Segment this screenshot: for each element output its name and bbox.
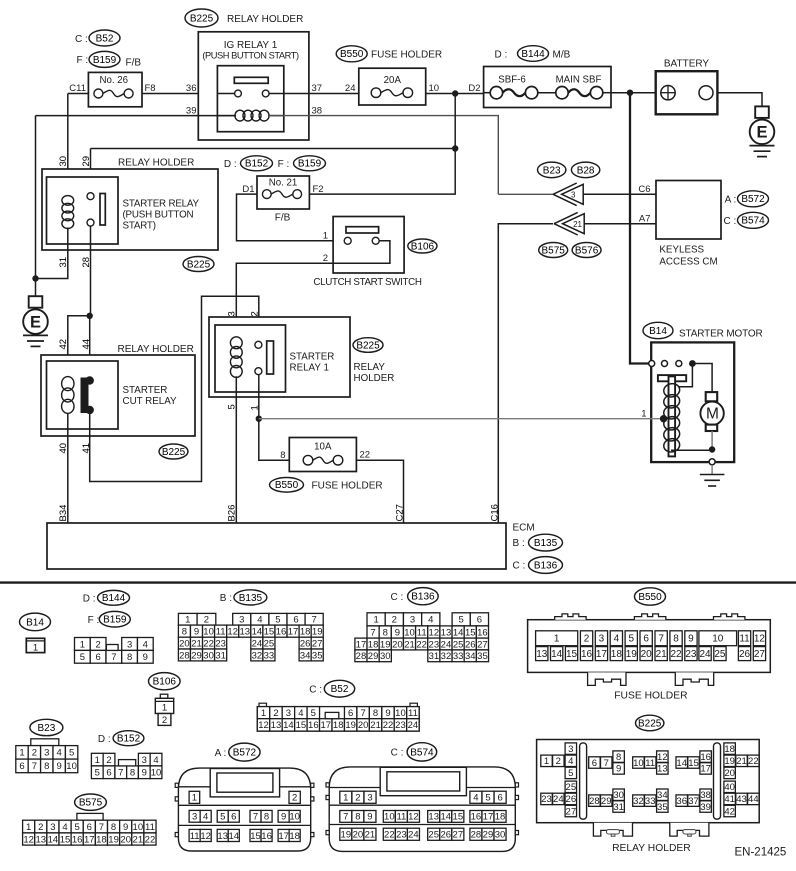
svg-text:21: 21	[365, 830, 376, 841]
connector label A: B572 (bottom)	[215, 743, 260, 761]
svg-text:25: 25	[566, 782, 577, 793]
connector label C: B574	[724, 212, 769, 228]
svg-text:(PUSH BUTTON: (PUSH BUTTON	[123, 210, 194, 221]
svg-text:C16: C16	[490, 504, 501, 521]
svg-text:14: 14	[676, 758, 687, 769]
svg-text:25: 25	[714, 649, 726, 660]
starter motor solenoid plunger	[658, 375, 686, 456]
svg-text:FUSE HOLDER: FUSE HOLDER	[371, 50, 442, 61]
svg-text:B136: B136	[534, 560, 558, 571]
svg-text:3: 3	[568, 744, 573, 755]
svg-text:39: 39	[700, 802, 711, 813]
svg-text:A7: A7	[639, 213, 651, 224]
svg-text:B14: B14	[26, 617, 44, 628]
keyless label B28	[571, 162, 599, 178]
svg-text:28: 28	[179, 650, 190, 661]
svg-text:B106: B106	[411, 241, 435, 252]
svg-text:14: 14	[252, 626, 263, 637]
svg-text:22: 22	[383, 720, 394, 731]
svg-text:25: 25	[264, 638, 275, 649]
svg-text:10A: 10A	[314, 442, 332, 453]
svg-text:19: 19	[724, 756, 735, 767]
svg-text:F :: F :	[77, 55, 89, 66]
svg-text:17: 17	[278, 831, 289, 842]
svg-text:8: 8	[264, 812, 269, 823]
svg-text:27: 27	[312, 638, 323, 649]
svg-text:28: 28	[589, 796, 600, 807]
svg-text:31: 31	[429, 651, 440, 662]
keyless access CM	[656, 181, 721, 268]
starter motor ground terminal	[709, 459, 715, 465]
svg-text:17: 17	[320, 720, 331, 731]
svg-text:28: 28	[356, 651, 367, 662]
svg-text:24: 24	[408, 720, 419, 731]
junction node ground-left	[32, 275, 38, 281]
svg-text:26: 26	[300, 638, 311, 649]
svg-text:38: 38	[700, 790, 711, 801]
svg-text:E: E	[756, 124, 767, 142]
connector label F: B159	[77, 51, 142, 68]
connector label F: B159 (No.21)	[278, 156, 326, 171]
wire 37 / 24 to fuse 20A	[284, 83, 359, 94]
svg-text:17: 17	[596, 649, 608, 660]
svg-text:38: 38	[312, 106, 323, 117]
svg-text:12: 12	[200, 831, 211, 842]
svg-text:9: 9	[123, 822, 128, 833]
svg-text:C :: C :	[391, 748, 404, 759]
wire 8 to fuse 10A	[259, 419, 290, 461]
svg-text:20: 20	[353, 830, 364, 841]
svg-text:7: 7	[360, 708, 365, 719]
svg-text:11: 11	[417, 627, 427, 638]
svg-text:FUSE HOLDER: FUSE HOLDER	[312, 480, 383, 491]
svg-text:22: 22	[145, 834, 156, 845]
svg-text:20A: 20A	[384, 75, 402, 86]
svg-text:16: 16	[581, 649, 593, 660]
svg-text:6: 6	[95, 652, 100, 663]
ground E (battery)	[750, 106, 775, 156]
svg-text:2: 2	[292, 793, 297, 804]
connector B574	[326, 767, 519, 852]
svg-text:7: 7	[118, 768, 123, 779]
svg-text:17: 17	[700, 764, 711, 775]
svg-text:ECM: ECM	[513, 523, 535, 534]
svg-text:6: 6	[19, 761, 24, 772]
svg-text:1: 1	[185, 615, 190, 626]
svg-text:5: 5	[69, 748, 74, 759]
svg-text:12: 12	[23, 834, 34, 845]
svg-text:B225: B225	[356, 340, 380, 351]
svg-text:9: 9	[395, 627, 400, 638]
svg-text:33: 33	[264, 650, 275, 661]
svg-text:21: 21	[573, 220, 582, 229]
svg-text:9: 9	[142, 768, 147, 779]
svg-text:20: 20	[392, 639, 403, 650]
svg-text:16: 16	[261, 831, 272, 842]
svg-text:B575: B575	[542, 245, 566, 256]
svg-text:24: 24	[441, 639, 452, 650]
starter motor B14	[643, 322, 763, 462]
relay IG RELAY 1 (push button start)	[202, 40, 299, 132]
svg-text:7: 7	[99, 822, 104, 833]
svg-text:7: 7	[658, 634, 664, 645]
svg-text:15: 15	[465, 627, 476, 638]
svg-text:B135: B135	[534, 538, 558, 549]
svg-text:21: 21	[404, 639, 415, 650]
svg-text:18: 18	[724, 744, 735, 755]
svg-text:2: 2	[32, 748, 37, 759]
svg-text:30: 30	[203, 650, 214, 661]
svg-text:15: 15	[566, 649, 578, 660]
svg-text:C :: C :	[75, 34, 88, 45]
svg-text:1: 1	[26, 822, 31, 833]
svg-text:42: 42	[724, 806, 735, 817]
svg-text:19: 19	[312, 626, 323, 637]
svg-text:C :: C :	[513, 560, 526, 571]
wire F8 / 36 to IG relay	[142, 83, 235, 94]
svg-text:19: 19	[345, 720, 356, 731]
svg-text:START): START)	[123, 221, 156, 232]
svg-text:14: 14	[440, 812, 451, 823]
svg-text:17: 17	[288, 626, 299, 637]
svg-text:19: 19	[626, 649, 638, 660]
svg-text:STARTER RELAY: STARTER RELAY	[123, 199, 200, 210]
svg-text:C27: C27	[395, 504, 406, 521]
svg-text:32: 32	[441, 651, 452, 662]
svg-text:20: 20	[641, 649, 653, 660]
wire 28 down from starter relay	[81, 226, 92, 316]
svg-text:23: 23	[541, 794, 552, 805]
battery feed wire to starter motor	[630, 93, 652, 364]
svg-text:44: 44	[748, 794, 759, 805]
connector label C: B136	[391, 588, 439, 605]
svg-text:4: 4	[257, 615, 262, 626]
svg-text:B225: B225	[162, 447, 186, 458]
connector label B: B135	[220, 590, 267, 605]
ground E (left)	[23, 296, 48, 346]
svg-text:3: 3	[192, 812, 197, 823]
svg-text:16: 16	[471, 812, 482, 823]
svg-text:7: 7	[312, 615, 317, 626]
relay holder B225 (IG relay)	[185, 9, 309, 140]
svg-text:B574: B574	[741, 216, 765, 227]
separator line	[0, 581, 796, 583]
svg-text:8: 8	[355, 812, 360, 823]
svg-text:B26: B26	[227, 505, 238, 522]
svg-text:1: 1	[80, 639, 85, 650]
svg-text:14: 14	[453, 627, 464, 638]
svg-text:34: 34	[300, 650, 311, 661]
svg-text:3: 3	[239, 615, 244, 626]
svg-text:30: 30	[58, 156, 69, 167]
svg-text:STARTER MOTOR: STARTER MOTOR	[679, 329, 763, 340]
svg-text:29: 29	[483, 830, 494, 841]
svg-text:13: 13	[36, 834, 47, 845]
svg-text:10: 10	[395, 708, 406, 719]
connector label F: B159 (bottom)	[88, 611, 131, 627]
svg-text:14: 14	[228, 831, 239, 842]
svg-text:C :: C :	[309, 684, 322, 695]
svg-text:1: 1	[192, 793, 197, 804]
svg-text:4: 4	[153, 755, 158, 766]
svg-text:No. 26: No. 26	[100, 75, 129, 86]
svg-text:9: 9	[57, 761, 62, 772]
starter relay 1	[215, 325, 334, 392]
svg-text:1: 1	[250, 405, 261, 410]
svg-text:7: 7	[111, 652, 116, 663]
svg-text:6: 6	[497, 793, 502, 804]
svg-text:4: 4	[57, 748, 62, 759]
svg-text:7: 7	[32, 761, 37, 772]
svg-text:4: 4	[473, 793, 478, 804]
wire 1 from starter relay 1	[250, 375, 261, 419]
connector B225 relay holder	[537, 740, 760, 837]
svg-text:15: 15	[296, 720, 307, 731]
svg-text:D :: D :	[224, 159, 237, 170]
svg-text:A :: A :	[215, 748, 227, 759]
svg-text:9: 9	[616, 764, 621, 775]
svg-text:39: 39	[186, 106, 197, 117]
svg-text:1: 1	[261, 708, 266, 719]
svg-text:FUSE HOLDER: FUSE HOLDER	[614, 691, 687, 702]
svg-text:35: 35	[312, 650, 323, 661]
keyless label B575	[539, 243, 568, 258]
fuse 10A	[270, 438, 383, 493]
connector B106 (bottom)	[149, 673, 181, 726]
svg-text:B :: B :	[513, 538, 525, 549]
svg-text:B550: B550	[638, 592, 662, 603]
junction node wire 1	[256, 416, 262, 422]
svg-text:34: 34	[657, 790, 668, 801]
svg-text:10: 10	[633, 758, 644, 769]
svg-text:24: 24	[345, 83, 356, 94]
wire 42 to starter cut relay coil	[58, 316, 90, 379]
svg-text:1: 1	[554, 634, 560, 645]
svg-text:16: 16	[308, 720, 319, 731]
svg-text:14: 14	[48, 834, 59, 845]
svg-text:18: 18	[495, 812, 506, 823]
svg-text:2: 2	[204, 615, 209, 626]
svg-text:5: 5	[311, 708, 316, 719]
svg-text:10: 10	[203, 626, 214, 637]
svg-text:B225: B225	[187, 259, 211, 270]
svg-text:F :: F :	[278, 159, 290, 170]
svg-text:10: 10	[404, 627, 415, 638]
svg-text:8: 8	[373, 708, 378, 719]
svg-text:27: 27	[453, 830, 464, 841]
svg-text:32: 32	[252, 650, 263, 661]
svg-text:20: 20	[120, 834, 131, 845]
svg-text:31: 31	[215, 650, 226, 661]
svg-text:3: 3	[571, 191, 576, 200]
svg-text:12: 12	[657, 752, 668, 763]
svg-text:9: 9	[281, 812, 286, 823]
keyless label B23	[538, 162, 566, 178]
svg-text:5: 5	[275, 615, 280, 626]
clutch start switch B106	[313, 217, 437, 289]
svg-text:D2: D2	[468, 83, 480, 94]
svg-text:4: 4	[298, 708, 303, 719]
wire M/B to battery	[611, 92, 656, 94]
svg-text:STARTER: STARTER	[290, 352, 335, 363]
svg-text:C6: C6	[638, 184, 650, 195]
svg-text:35: 35	[477, 651, 488, 662]
svg-text:RELAY HOLDER: RELAY HOLDER	[118, 344, 194, 355]
svg-text:B225: B225	[638, 718, 662, 729]
connector B572	[175, 768, 314, 851]
svg-text:6: 6	[477, 615, 482, 626]
wire clutch switch 2 / 3 to starter relay 1 coil	[227, 263, 334, 338]
svg-text:11: 11	[408, 708, 418, 719]
svg-text:F8: F8	[145, 83, 156, 94]
svg-text:RELAY HOLDER: RELAY HOLDER	[612, 843, 691, 854]
wire 5 to ECM B26	[227, 376, 238, 523]
svg-text:E: E	[30, 314, 41, 332]
svg-text:31: 31	[613, 802, 624, 813]
svg-text:36: 36	[676, 796, 687, 807]
svg-text:19: 19	[341, 830, 352, 841]
wire 10 / D2	[426, 83, 484, 94]
svg-text:C :: C :	[724, 216, 737, 227]
svg-text:15: 15	[453, 812, 464, 823]
svg-text:29: 29	[368, 651, 379, 662]
starter motor terminals	[649, 360, 696, 387]
svg-text:24: 24	[252, 638, 263, 649]
svg-text:25: 25	[428, 830, 439, 841]
svg-text:21: 21	[736, 756, 747, 767]
wire 44 to starter cut relay contact	[81, 316, 92, 378]
connector B23	[16, 719, 78, 772]
svg-text:13: 13	[536, 649, 548, 660]
svg-text:12: 12	[754, 634, 766, 645]
svg-text:11: 11	[396, 812, 406, 823]
svg-text:18: 18	[289, 831, 300, 842]
svg-text:5: 5	[227, 404, 238, 409]
svg-text:B572: B572	[741, 194, 765, 205]
svg-text:5: 5	[80, 652, 85, 663]
connector label D: B152	[224, 156, 273, 171]
svg-text:42: 42	[58, 339, 69, 350]
junction node battery feed	[627, 90, 633, 96]
svg-text:16: 16	[276, 626, 287, 637]
svg-text:4: 4	[568, 756, 573, 767]
svg-text:13: 13	[239, 626, 250, 637]
svg-text:A :: A :	[725, 194, 737, 205]
svg-text:18: 18	[333, 720, 344, 731]
svg-text:33: 33	[453, 651, 464, 662]
svg-text:19: 19	[108, 834, 119, 845]
svg-text:2: 2	[250, 311, 261, 316]
svg-text:STARTER: STARTER	[123, 385, 168, 396]
svg-text:27: 27	[477, 639, 488, 650]
svg-text:EN-21425: EN-21425	[735, 847, 787, 859]
connector label D: B152 (bottom)	[98, 731, 144, 746]
svg-text:18: 18	[96, 834, 107, 845]
svg-text:4: 4	[203, 812, 208, 823]
connector label A: B572	[725, 191, 769, 207]
svg-text:10: 10	[66, 761, 77, 772]
svg-text:D :: D :	[495, 49, 508, 60]
svg-text:24: 24	[699, 649, 711, 660]
starter motor M	[692, 364, 723, 432]
svg-text:17: 17	[84, 834, 95, 845]
svg-text:6: 6	[106, 768, 111, 779]
svg-text:2: 2	[323, 253, 328, 264]
svg-text:3: 3	[599, 634, 605, 645]
relay holder B225 (starter relay)	[42, 158, 218, 272]
svg-text:RELAY HOLDER: RELAY HOLDER	[118, 158, 194, 169]
svg-text:29: 29	[191, 650, 202, 661]
svg-text:13: 13	[657, 764, 668, 775]
svg-text:20: 20	[179, 638, 190, 649]
svg-text:23: 23	[395, 720, 406, 731]
svg-text:7: 7	[604, 758, 609, 769]
junction node starter motor coil	[660, 415, 667, 422]
fuse 20A	[359, 68, 426, 105]
svg-text:No. 21: No. 21	[269, 178, 298, 189]
starter cut relay	[47, 361, 178, 429]
svg-text:17: 17	[483, 812, 494, 823]
connector label C: B52	[75, 30, 120, 46]
svg-text:D :: D :	[98, 734, 111, 745]
svg-text:32: 32	[633, 796, 644, 807]
svg-text:19: 19	[380, 639, 391, 650]
svg-text:16: 16	[72, 834, 83, 845]
svg-text:34: 34	[465, 651, 476, 662]
svg-text:23: 23	[429, 639, 440, 650]
svg-text:35: 35	[657, 802, 668, 813]
wire A7 to keyless access CM	[584, 213, 656, 224]
svg-text:B550: B550	[340, 49, 364, 60]
svg-text:5: 5	[95, 768, 100, 779]
connector B52 pin grid	[257, 703, 419, 731]
svg-text:5: 5	[485, 793, 490, 804]
wire C6 to keyless access CM	[583, 184, 656, 195]
svg-text:2: 2	[273, 708, 278, 719]
svg-text:B225: B225	[190, 13, 214, 24]
svg-text:8: 8	[383, 627, 388, 638]
connector B14	[20, 613, 51, 653]
svg-text:4: 4	[428, 615, 433, 626]
svg-text:RELAY HOLDER: RELAY HOLDER	[227, 14, 303, 25]
svg-text:B144: B144	[521, 49, 545, 60]
arrow 21 (to keyless)	[554, 212, 584, 235]
svg-text:22: 22	[384, 830, 395, 841]
relay holder B225 (starter relay 1)	[209, 317, 394, 397]
svg-text:22: 22	[203, 638, 214, 649]
svg-text:15: 15	[688, 758, 699, 769]
svg-text:30: 30	[495, 830, 506, 841]
svg-text:HOLDER: HOLDER	[354, 373, 395, 384]
svg-text:7: 7	[253, 812, 258, 823]
svg-text:B52: B52	[96, 33, 114, 44]
svg-text:RELAY: RELAY	[354, 362, 386, 373]
svg-text:26: 26	[566, 794, 577, 805]
svg-text:B135: B135	[239, 593, 263, 604]
connector B152 pin grid	[91, 753, 161, 778]
svg-text:10: 10	[289, 812, 300, 823]
svg-text:33: 33	[645, 796, 656, 807]
svg-text:23: 23	[215, 638, 226, 649]
svg-text:9: 9	[367, 812, 372, 823]
wire A7 branch down to ECM C16	[498, 224, 553, 523]
fuse No. 21 (F/B)	[257, 176, 309, 224]
svg-text:MAIN SBF: MAIN SBF	[556, 75, 602, 86]
svg-text:6: 6	[231, 812, 236, 823]
svg-text:27: 27	[566, 806, 577, 817]
main bus M/B with D: B144 label	[484, 46, 611, 108]
svg-text:40: 40	[58, 443, 69, 454]
